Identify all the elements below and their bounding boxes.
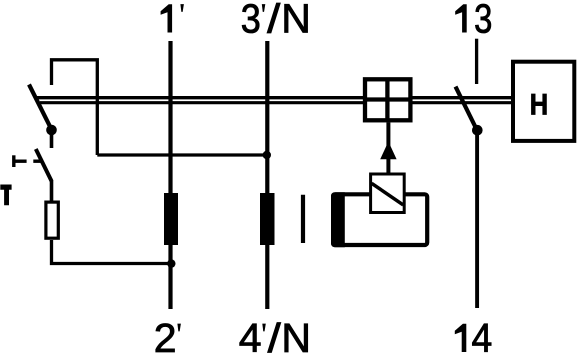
terminal label 13 xyxy=(455,0,492,41)
svg-text:/: / xyxy=(268,316,282,361)
CT primary winding bar phase xyxy=(164,193,178,245)
switch main contact hinge dot xyxy=(46,125,57,136)
svg-text:/: / xyxy=(267,0,281,42)
wire loop from phase terminal over to N link xyxy=(52,60,98,155)
wire resistor to 2' conductor xyxy=(52,240,172,264)
wire terminal 13 stub xyxy=(475,39,478,84)
secondary winding block filled end xyxy=(331,192,345,247)
svg-text:N: N xyxy=(281,0,311,42)
junction dot on N conductor xyxy=(263,151,271,159)
switch main contact blade xyxy=(29,85,52,130)
terminal label 14 xyxy=(455,316,492,361)
resistor test resistor xyxy=(46,202,58,238)
wire conductor 3'/N-4'/N xyxy=(265,41,269,309)
wire main contact to test contact xyxy=(50,130,54,148)
bus wire lower line xyxy=(40,101,511,104)
svg-text:4: 4 xyxy=(472,316,493,361)
auxiliary contact hinge dot xyxy=(472,125,483,136)
terminal label 3'/N xyxy=(241,0,311,42)
terminal label 2' xyxy=(154,315,181,361)
relay box cross vertical xyxy=(385,79,389,120)
indicator box H xyxy=(513,62,574,141)
wire test switch to resistor xyxy=(50,180,54,201)
trip linkage arrow head xyxy=(380,142,396,160)
auxiliary contact 13-14 blade xyxy=(456,87,478,131)
label T test button xyxy=(0,185,11,206)
trip linkage arrow shaft xyxy=(386,123,390,173)
svg-text:2: 2 xyxy=(154,315,177,361)
test switch blade xyxy=(36,149,52,181)
terminal label 1' xyxy=(161,4,184,32)
CT primary winding bar neutral xyxy=(260,193,275,245)
svg-text:N: N xyxy=(281,315,311,361)
sensing element diagonal xyxy=(372,183,404,205)
secondary winding block xyxy=(333,194,427,245)
CT core bar xyxy=(301,195,305,243)
wire N link horizontal xyxy=(97,153,266,156)
svg-text:3: 3 xyxy=(241,0,261,42)
wire conductor 1'-2' xyxy=(168,41,172,309)
relay box cross horizontal xyxy=(365,97,410,101)
test button actuator xyxy=(14,155,42,167)
junction dot on 2' conductor xyxy=(167,259,175,267)
relay trip coil box xyxy=(365,79,410,120)
bus wire upper line xyxy=(34,96,511,99)
terminal label 4'/N xyxy=(239,315,311,361)
svg-text:3: 3 xyxy=(474,0,492,41)
wire conductor to terminal 14 xyxy=(475,130,479,308)
svg-text:4: 4 xyxy=(239,315,262,361)
sensing element square xyxy=(371,174,405,213)
svg-text:H: H xyxy=(530,88,548,121)
